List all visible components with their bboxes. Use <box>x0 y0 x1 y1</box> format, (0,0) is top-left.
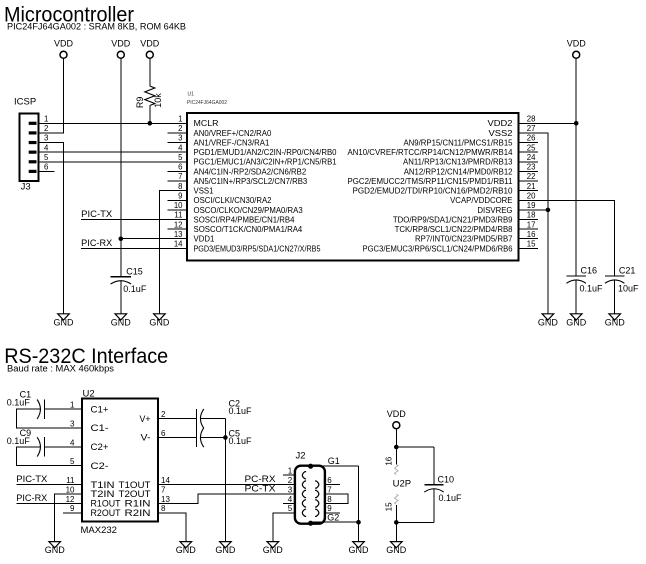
svg-text:PIC24FJ64GA002: PIC24FJ64GA002 <box>187 100 227 106</box>
svg-text:18: 18 <box>527 211 536 220</box>
svg-text:MCLR: MCLR <box>194 119 219 128</box>
svg-text:6: 6 <box>161 429 166 438</box>
capacitor C21 <box>605 266 639 294</box>
ic U1 PIC24FJ64GA002 <box>167 92 538 261</box>
ground (ICSP) <box>54 314 75 328</box>
svg-text:PGD3/EMUD3/RP5/SDA1/CN27/X/RB5: PGD3/EMUD3/RP5/SDA1/CN27/X/RB5 <box>194 244 322 253</box>
svg-text:7: 7 <box>161 485 166 494</box>
capacitor C9 <box>7 428 45 457</box>
svg-text:SOSCI/RP4/PMBE/CN1/RB4: SOSCI/RP4/PMBE/CN1/RB4 <box>194 215 296 224</box>
svg-text:J3: J3 <box>21 182 31 193</box>
svg-text:R2IN: R2IN <box>125 508 151 519</box>
svg-text:9: 9 <box>178 191 182 200</box>
svg-text:AN10/CVREF/RTCC/RP14/CN12/PMWR: AN10/CVREF/RTCC/RP14/CN12/PMWR/RB14 <box>348 148 514 157</box>
svg-text:U2P: U2P <box>393 479 411 490</box>
wire VDD to ICSP pin2 <box>39 58 64 133</box>
svg-text:PGC1/EMUC1/AN3/C2IN+/RP1/CN5/R: PGC1/EMUC1/AN3/C2IN+/RP1/CN5/RB1 <box>194 158 337 167</box>
wire J2 pin1 stub <box>283 474 295 476</box>
svg-text:VDD2: VDD2 <box>488 119 513 128</box>
svg-text:25: 25 <box>527 143 536 152</box>
svg-text:C21: C21 <box>619 266 636 276</box>
svg-text:8: 8 <box>178 182 182 191</box>
svg-text:6: 6 <box>327 476 332 485</box>
node U2P pin16 junction <box>394 445 399 450</box>
svg-text:GND: GND <box>263 545 284 555</box>
svg-text:2: 2 <box>288 476 293 485</box>
svg-text:C16: C16 <box>581 266 598 276</box>
wire J2 pin7-pin8 jumper <box>325 494 348 503</box>
svg-text:8: 8 <box>161 504 166 513</box>
svg-text:19: 19 <box>527 201 536 210</box>
node G2 junction <box>356 520 361 525</box>
wire PIC-RX <box>81 247 187 249</box>
svg-text:U1: U1 <box>188 92 195 98</box>
svg-text:7: 7 <box>178 172 182 181</box>
svg-text:C15: C15 <box>126 266 143 276</box>
svg-text:12: 12 <box>174 220 183 229</box>
wire pin15 node to C10 bottom <box>396 521 434 523</box>
power VDD (to R9) <box>140 39 160 59</box>
wire C1 loop (U2 pin1 to pin3) <box>44 408 82 410</box>
svg-text:3: 3 <box>288 485 293 494</box>
wire PIC-TX to T1IN <box>16 484 82 486</box>
ground (T2IN) <box>45 542 66 556</box>
svg-text:PGC3/EMUC3/RP6/SCL1/CN24/PMD6/: PGC3/EMUC3/RP6/SCL1/CN24/PMD6/RB6 <box>363 244 513 253</box>
svg-text:VSS1: VSS1 <box>194 187 214 196</box>
svg-text:28: 28 <box>527 115 536 124</box>
svg-text:14: 14 <box>174 240 183 249</box>
svg-text:VDD: VDD <box>111 39 131 49</box>
svg-text:6: 6 <box>178 163 182 172</box>
svg-text:4: 4 <box>44 143 49 152</box>
svg-text:AN5/C1IN+/RP3/SCL2/CN7/RB3: AN5/C1IN+/RP3/SCL2/CN7/RB3 <box>194 177 308 186</box>
wire VDD2 (pin28) column <box>519 122 577 124</box>
capacitor C1 <box>7 389 45 419</box>
node U2P pin15 junction <box>394 520 399 525</box>
wire VDD column to VDD1 pin13 and C15 <box>120 58 122 277</box>
svg-text:VCAP/VDDCORE: VCAP/VDDCORE <box>450 196 512 205</box>
svg-text:10: 10 <box>174 201 183 210</box>
svg-text:Baud rate : MAX 460kbps: Baud rate : MAX 460kbps <box>7 363 115 373</box>
svg-text:4: 4 <box>178 143 183 152</box>
wire J2 pin6 stub <box>325 484 340 486</box>
svg-text:AN1/VREF-/CN3/RA1: AN1/VREF-/CN3/RA1 <box>194 138 270 147</box>
svg-text:AN4/C1IN-/RP2/SDA2/CN6/RB2: AN4/C1IN-/RP2/SDA2/CN6/RB2 <box>194 167 307 176</box>
svg-text:AN9/RP15/CN11/PMCS1/RB15: AN9/RP15/CN11/PMCS1/RB15 <box>403 138 513 147</box>
ground (G1/G2) <box>349 542 370 556</box>
svg-text:G2: G2 <box>327 512 339 522</box>
svg-text:1: 1 <box>70 401 75 410</box>
svg-text:3: 3 <box>178 134 182 143</box>
svg-text:1: 1 <box>288 467 293 476</box>
svg-text:C2-: C2- <box>91 461 109 472</box>
svg-text:2: 2 <box>44 124 48 133</box>
svg-text:V-: V- <box>141 433 151 444</box>
svg-text:PGD1/EMUD1/AN2/C2IN-/RP0/CN4/R: PGD1/EMUD1/AN2/C2IN-/RP0/CN4/RB0 <box>194 148 338 157</box>
node C5 junction <box>223 435 228 440</box>
power VDD (to ICSP pin 2) <box>54 39 74 59</box>
svg-text:ICSP: ICSP <box>14 97 36 108</box>
svg-text:GND: GND <box>566 317 587 327</box>
power VDD (to VDD1 pin 13) <box>111 39 131 59</box>
svg-text:10uF: 10uF <box>618 284 639 294</box>
svg-text:GND: GND <box>215 545 236 555</box>
svg-text:C10: C10 <box>438 474 455 484</box>
svg-text:4: 4 <box>288 495 293 504</box>
wire PGC (ICSP5 - U1 pin5) <box>39 161 187 163</box>
svg-text:0.1uF: 0.1uF <box>229 406 253 416</box>
svg-text:PIC24FJ64GA002 : SRAM 8KB, ROM: PIC24FJ64GA002 : SRAM 8KB, ROM 64KB <box>7 22 186 32</box>
node VDD2 junction <box>574 121 579 126</box>
svg-text:2: 2 <box>161 410 166 419</box>
svg-text:14: 14 <box>161 476 170 485</box>
svg-text:24: 24 <box>527 153 536 162</box>
svg-text:GND: GND <box>111 317 132 327</box>
wire C2/C5 outputs to GND <box>201 418 226 420</box>
svg-text:5: 5 <box>288 504 293 513</box>
svg-text:0.1uF: 0.1uF <box>229 436 253 446</box>
svg-text:13: 13 <box>174 230 183 239</box>
J3 pin 6 stub <box>39 170 55 172</box>
svg-text:GND: GND <box>45 545 66 555</box>
capacitor C5 <box>197 428 253 447</box>
svg-text:PC-TX: PC-TX <box>245 484 276 494</box>
svg-text:J2: J2 <box>296 450 306 461</box>
ground (C16) <box>566 314 587 328</box>
wire VSS2 (pin27) to GND <box>519 133 548 314</box>
svg-text:AN12/RP12/CN14/PMD0/RB12: AN12/RP12/CN14/PMD0/RB12 <box>404 167 513 176</box>
wire VSS1 (pin8) to GND <box>159 191 187 314</box>
svg-text:SOSCO/T1CK/CN0/PMA1/RA4: SOSCO/T1CK/CN0/PMA1/RA4 <box>194 225 303 234</box>
svg-text:GND: GND <box>386 545 407 555</box>
wire PIC-TX <box>81 219 187 221</box>
svg-text:13: 13 <box>161 495 170 504</box>
svg-text:GND: GND <box>538 317 559 327</box>
svg-text:PIC-RX: PIC-RX <box>81 238 112 248</box>
svg-text:8: 8 <box>327 495 332 504</box>
capacitor C10 <box>424 447 462 522</box>
capacitor C16 <box>567 266 604 294</box>
svg-text:GND: GND <box>349 545 370 555</box>
wire ICSP pin3 to GND <box>39 143 64 314</box>
svg-text:15: 15 <box>527 240 536 249</box>
ground (J2 pin5) <box>263 542 284 556</box>
wire G1/G2 to GND <box>311 465 359 467</box>
svg-text:4: 4 <box>70 438 75 447</box>
ground (R2IN) <box>176 542 197 556</box>
svg-text:11: 11 <box>66 476 75 485</box>
svg-text:20: 20 <box>527 191 536 200</box>
svg-text:PC-RX: PC-RX <box>245 474 276 484</box>
svg-text:GND: GND <box>605 317 626 327</box>
svg-text:AN11/RP13/CN13/PMRD/RB13: AN11/RP13/CN13/PMRD/RB13 <box>403 158 513 167</box>
wire R2OUT stub <box>63 512 82 514</box>
svg-text:12: 12 <box>66 495 75 504</box>
wire C15 to GND <box>120 281 122 314</box>
svg-text:VDD: VDD <box>54 39 74 49</box>
svg-text:R9: R9 <box>135 97 145 109</box>
svg-text:23: 23 <box>527 163 536 172</box>
svg-text:21: 21 <box>527 182 536 191</box>
wire PGD (ICSP4 - U1 pin4) <box>39 151 187 153</box>
svg-text:OSCI/CLKI/CN30/RA2: OSCI/CLKI/CN30/RA2 <box>194 196 272 205</box>
svg-text:GND: GND <box>149 317 170 327</box>
ground (C15) <box>111 314 132 328</box>
svg-text:0.1uF: 0.1uF <box>580 284 604 294</box>
wire V+ to C2 <box>158 418 197 420</box>
resistor R9 <box>135 58 163 108</box>
svg-text:MAX232: MAX232 <box>81 525 117 536</box>
svg-text:C1+: C1+ <box>91 404 109 415</box>
svg-text:5: 5 <box>178 153 183 162</box>
svg-text:PGC2/EMUCC2/TMS/RP11/CN15/PMD1: PGC2/EMUCC2/TMS/RP11/CN15/PMD1/RB11 <box>348 177 513 186</box>
wire C9 loop (U2 pin4 to pin5) <box>44 446 82 448</box>
svg-text:1: 1 <box>178 115 182 124</box>
svg-text:TDO/RP9/SDA1/CN21/PMD3/RB9: TDO/RP9/SDA1/CN21/PMD3/RB9 <box>393 215 513 224</box>
node VDD1 junction <box>119 236 124 241</box>
svg-text:PIC-RX: PIC-RX <box>16 493 47 503</box>
svg-text:VSS2: VSS2 <box>489 129 513 138</box>
svg-text:AN0/VREF+/CN2/RA0: AN0/VREF+/CN2/RA0 <box>194 129 272 138</box>
svg-text:15: 15 <box>384 502 393 511</box>
node MCLR junction <box>148 121 153 126</box>
wire VDD to U2P pin16 <box>395 429 397 465</box>
svg-text:0.1uF: 0.1uF <box>123 284 147 294</box>
svg-text:6: 6 <box>44 163 48 172</box>
svg-text:3: 3 <box>70 419 75 428</box>
svg-text:5: 5 <box>44 153 49 162</box>
ic U2P power pins <box>384 456 411 511</box>
svg-text:26: 26 <box>527 134 536 143</box>
svg-text:22: 22 <box>527 172 536 181</box>
svg-text:0.1uF: 0.1uF <box>7 398 31 408</box>
svg-text:9: 9 <box>70 504 75 513</box>
svg-text:17: 17 <box>527 220 536 229</box>
svg-text:16: 16 <box>527 230 536 239</box>
power VDD (U2P) <box>387 409 407 429</box>
ground (C2/C5) <box>215 542 236 556</box>
svg-text:VDD: VDD <box>140 39 160 49</box>
wire U2P pin15 to GND <box>395 505 397 541</box>
svg-text:27: 27 <box>527 124 536 133</box>
svg-text:PIC-TX: PIC-TX <box>81 209 112 219</box>
wire C16 to GND <box>575 280 577 314</box>
connector J3 ICSP <box>14 97 49 193</box>
wire VCAP (pin20) to C21 <box>519 200 615 276</box>
svg-text:R2OUT: R2OUT <box>91 508 121 519</box>
wire V- to C5 <box>158 436 197 438</box>
ground (VSS2) <box>538 314 559 328</box>
connector J2 DB9 <box>288 450 340 526</box>
svg-text:GND: GND <box>176 545 197 555</box>
wire PC-TX with jog to R1IN <box>158 494 295 503</box>
svg-text:VDD: VDD <box>567 39 587 49</box>
wire R2IN to GND <box>158 513 186 542</box>
wire PC-RX <box>158 484 295 486</box>
svg-text:10: 10 <box>66 485 75 494</box>
ic U2 MAX232 <box>66 388 171 536</box>
wire J2 pin4 stub <box>283 502 295 504</box>
svg-text:TCK/RP8/SCL1/CN22/PMD4/RB8: TCK/RP8/SCL1/CN22/PMD4/RB8 <box>395 225 513 234</box>
svg-text:RP7/INT0/CN23/PMD5/RB7: RP7/INT0/CN23/PMD5/RB7 <box>415 235 513 244</box>
svg-text:PGD2/EMUD2/TDI/RP10/CN16/PMD2/: PGD2/EMUD2/TDI/RP10/CN16/PMD2/RB10 <box>353 187 514 196</box>
svg-text:3: 3 <box>44 134 48 143</box>
svg-text:G1: G1 <box>328 456 340 466</box>
wire J2 pin5 to GND <box>273 513 295 542</box>
wire J2 pin9 stub <box>325 512 340 514</box>
capacitor C15 <box>111 266 147 294</box>
ground (C21) <box>605 314 626 328</box>
svg-text:GND: GND <box>54 317 75 327</box>
svg-text:10k: 10k <box>153 93 163 108</box>
wire MCLR net (ICSP1 - R9 - U1 pin1) <box>39 122 187 124</box>
power VDD (to VDD2 pin 28) <box>567 39 587 59</box>
svg-text:DISVREG: DISVREG <box>477 206 512 215</box>
svg-text:C2+: C2+ <box>91 442 109 453</box>
svg-text:16: 16 <box>384 456 393 465</box>
svg-text:11: 11 <box>174 211 182 220</box>
svg-text:5: 5 <box>70 457 75 466</box>
wire pin16 node to C10 top <box>396 446 434 448</box>
svg-text:0.1uF: 0.1uF <box>439 493 463 503</box>
wire C21 to GND <box>614 280 616 314</box>
node DISVREG junction <box>546 208 551 213</box>
svg-text:7: 7 <box>327 485 332 494</box>
svg-text:V+: V+ <box>140 414 151 425</box>
ground (U2P) <box>386 542 407 556</box>
svg-text:VDD1: VDD1 <box>194 235 215 244</box>
wire T2IN to GND <box>55 494 82 542</box>
wire PIC-RX to R1OUT <box>16 502 82 504</box>
svg-text:C1-: C1- <box>91 423 109 434</box>
svg-text:2: 2 <box>178 124 182 133</box>
wire DISVREG (pin19) stub <box>519 209 548 211</box>
ground (VSS1) <box>149 314 170 328</box>
capacitor C2 <box>197 398 253 428</box>
svg-text:VDD: VDD <box>387 409 407 419</box>
svg-text:0.1uF: 0.1uF <box>7 436 31 446</box>
svg-text:PIC-TX: PIC-TX <box>16 474 47 484</box>
svg-text:1: 1 <box>44 115 48 124</box>
svg-text:OSCO/CLKO/CN29/PMA0/RA3: OSCO/CLKO/CN29/PMA0/RA3 <box>194 206 303 215</box>
